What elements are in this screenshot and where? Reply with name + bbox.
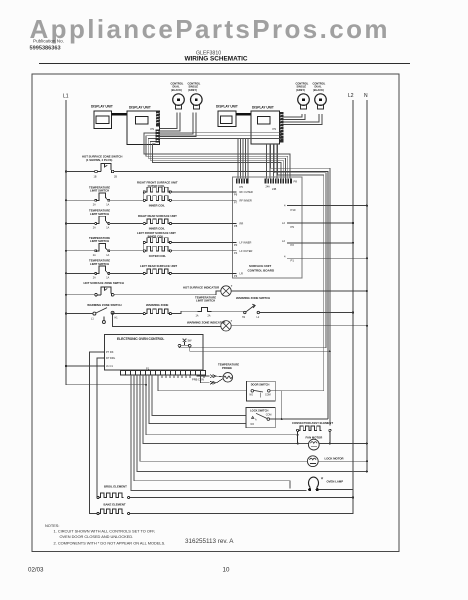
svg-text:4: 4 bbox=[284, 204, 286, 208]
heater RR coil bbox=[143, 219, 171, 225]
svg-text:P5: P5 bbox=[240, 185, 244, 189]
svg-text:2A: 2A bbox=[93, 277, 96, 280]
control switch S3 label bbox=[296, 82, 309, 92]
svg-text:P2: P2 bbox=[291, 243, 295, 247]
bus L1 bbox=[66, 100, 146, 385]
svg-text:WIRING SCHEMATIC: WIRING SCHEMATIC bbox=[184, 56, 247, 63]
warming zone switch S15 bbox=[244, 304, 260, 313]
label right front surface unit / outer coil bbox=[137, 180, 178, 188]
svg-text:OUTER COIL: OUTER COIL bbox=[149, 254, 167, 258]
hot surface zone switch S5 label bbox=[82, 155, 122, 162]
temperature limit switch label bbox=[89, 186, 110, 193]
heater broil element bbox=[97, 493, 130, 499]
connector strip on U2 right edge bbox=[156, 112, 160, 127]
schematic frame bbox=[32, 74, 399, 552]
svg-text:DISPLAY UNIT: DISPLAY UNIT bbox=[252, 106, 274, 110]
svg-text:P1: P1 bbox=[291, 259, 295, 263]
node L1-row2 bbox=[65, 199, 67, 201]
wire lock motor to N bbox=[318, 460, 368, 462]
svg-text:PRB CON: PRB CON bbox=[192, 378, 204, 382]
svg-text:LIMIT SWITCH: LIMIT SWITCH bbox=[90, 239, 109, 243]
control switch S2 (single grey) bbox=[191, 94, 203, 109]
svg-text:1A: 1A bbox=[196, 314, 199, 317]
wire bake to L2 bbox=[130, 512, 353, 515]
svg-text:H1: H1 bbox=[115, 317, 119, 320]
wires S3/S4 to U4 connector bbox=[284, 114, 323, 125]
wire row2 bbox=[66, 192, 143, 200]
heater bake element bbox=[97, 509, 130, 515]
nested harness wires from EOC connector bbox=[131, 375, 367, 490]
temperature limit switch label bbox=[89, 209, 110, 216]
svg-text:LOCK SWITCH: LOCK SWITCH bbox=[250, 408, 268, 412]
temperature limit switch label bbox=[89, 236, 110, 243]
heater LF outer coil bbox=[143, 246, 171, 252]
svg-text:24B: 24B bbox=[272, 188, 277, 191]
temperature limit switch (NC bump) bbox=[95, 266, 110, 274]
lock switch S14 bbox=[246, 407, 275, 427]
svg-text:LIMIT SWITCH: LIMIT SWITCH bbox=[90, 189, 109, 193]
lock motor M2 bbox=[307, 456, 318, 467]
wire row1 bbox=[66, 172, 328, 420]
node L1-row4 bbox=[65, 250, 67, 252]
wire drops to board connector P5 bbox=[238, 139, 248, 179]
svg-text:LIMIT SWITCH: LIMIT SWITCH bbox=[90, 212, 109, 216]
wire lock switch right bbox=[270, 418, 328, 420]
heater warming zone coil bbox=[143, 309, 171, 315]
node L1-row5 bbox=[65, 272, 67, 274]
door switch S13 bbox=[246, 381, 275, 401]
svg-text:RF INNER: RF INNER bbox=[240, 198, 252, 202]
heater convection element bbox=[297, 426, 332, 445]
svg-text:LR: LR bbox=[240, 272, 243, 276]
svg-text:LIMIT SWITCH: LIMIT SWITCH bbox=[90, 262, 109, 266]
EOC bottom connector strip P1 bbox=[121, 371, 206, 376]
svg-text:DOOR SWITCH: DOOR SWITCH bbox=[251, 383, 270, 387]
board label bbox=[248, 264, 275, 273]
svg-text:P7: P7 bbox=[234, 201, 238, 205]
wire fan motor to N bbox=[319, 442, 368, 444]
indicator lamp DS1 bbox=[221, 284, 233, 296]
wire indicator DS1 to N bbox=[231, 290, 368, 292]
board right pin P2 wire to L2 bbox=[282, 239, 354, 247]
connector P8 on board top bbox=[265, 179, 298, 192]
hot surface zone switch S10 bbox=[95, 287, 114, 296]
display unit U4 (right large) bbox=[251, 106, 280, 145]
svg-text:P10: P10 bbox=[291, 208, 296, 212]
svg-text:2. COMPONENTS WITH * DO NOT: 2. COMPONENTS WITH * DO NOT APPEAR ON AL… bbox=[54, 540, 166, 545]
bus L2 bbox=[352, 100, 354, 513]
wire row7 jog and to L2 bbox=[211, 311, 354, 313]
svg-text:P3: P3 bbox=[234, 274, 238, 278]
svg-text:LF OUTER: LF OUTER bbox=[240, 249, 253, 253]
footer notes bbox=[45, 523, 165, 545]
svg-text:L1: L1 bbox=[91, 317, 94, 320]
board left pin P3 / LR bbox=[233, 272, 243, 278]
svg-text:02/03: 02/03 bbox=[28, 567, 44, 574]
svg-text:P8: P8 bbox=[294, 180, 298, 184]
control switch S2 label bbox=[188, 82, 201, 92]
control switch S4 (dual black) bbox=[315, 94, 327, 109]
label left front surface unit / inner coil bbox=[137, 231, 176, 239]
svg-text:A: A bbox=[255, 419, 257, 422]
board left pin P7 / RF INNER bbox=[233, 198, 252, 204]
svg-text:OVEN DOOR CLOSED AND UNLOCKED.: OVEN DOOR CLOSED AND UNLOCKED. bbox=[60, 534, 134, 539]
svg-text:*: * bbox=[231, 319, 233, 324]
svg-text:2A: 2A bbox=[93, 227, 96, 230]
svg-text:1A: 1A bbox=[106, 227, 109, 230]
temperature limit switch label bbox=[89, 259, 110, 266]
svg-text:CONTROL BOARD: CONTROL BOARD bbox=[248, 269, 275, 273]
svg-text:D7 DRL: D7 DRL bbox=[106, 356, 116, 360]
wire bundle B wrap-around (to board and middle verticals) bbox=[144, 133, 330, 425]
publication number block bbox=[30, 38, 222, 56]
EOC left pin D7/DRL bbox=[103, 356, 116, 360]
svg-text:WARMING ZONE SWITCH: WARMING ZONE SWITCH bbox=[87, 303, 121, 307]
svg-text:P0: P0 bbox=[234, 243, 238, 247]
node N harness row bbox=[366, 470, 368, 472]
svg-text:2A: 2A bbox=[93, 204, 96, 207]
wires EOC lamp to right verticals bbox=[190, 347, 330, 351]
svg-text:HOT SURFACE ZONE SWITCH: HOT SURFACE ZONE SWITCH bbox=[84, 281, 124, 285]
svg-text:WARMING ZONE SWITCH: WARMING ZONE SWITCH bbox=[236, 296, 270, 300]
svg-text:1A: 1A bbox=[106, 254, 109, 257]
svg-text:CONVECTION ASSY ELEMENT: CONVECTION ASSY ELEMENT bbox=[292, 421, 333, 425]
svg-text:BAKE ELEMENT: BAKE ELEMENT bbox=[104, 503, 126, 507]
svg-text:L2: L2 bbox=[348, 93, 354, 99]
svg-text:N: N bbox=[364, 93, 368, 99]
svg-text:OVEN LAMP: OVEN LAMP bbox=[327, 479, 344, 483]
connector P9 on U4 right edge bbox=[273, 112, 284, 143]
board left pin P4 / LF OUTER bbox=[233, 249, 253, 255]
svg-text:(GREY): (GREY) bbox=[296, 88, 305, 92]
svg-text:NO: NO bbox=[251, 423, 255, 426]
svg-text:2B: 2B bbox=[114, 176, 117, 179]
node L1-row6 bbox=[65, 294, 67, 296]
svg-text:10: 10 bbox=[223, 566, 230, 573]
svg-text:PROBE: PROBE bbox=[222, 366, 232, 370]
wire indicator DS2 to N bbox=[231, 325, 368, 327]
heater LR coil bbox=[143, 269, 171, 275]
wire oven lamp to L2 bbox=[319, 489, 353, 491]
svg-text:P8: P8 bbox=[234, 224, 238, 228]
control switch S1 (dual black) bbox=[173, 94, 185, 109]
svg-text:L2: L2 bbox=[282, 239, 285, 243]
svg-text:5W: 5W bbox=[188, 338, 192, 342]
svg-text:4: 4 bbox=[284, 255, 286, 259]
svg-text:COM: COM bbox=[266, 414, 272, 417]
board right pin P1 wire to N bbox=[284, 255, 368, 263]
EOC connector pin stubs bbox=[162, 375, 204, 378]
svg-text:ELECTRONIC OVEN CONTROL: ELECTRONIC OVEN CONTROL bbox=[117, 337, 164, 341]
svg-text:1A: 1A bbox=[106, 204, 109, 207]
heater RF inner coil bbox=[143, 196, 171, 202]
svg-text:(GREY): (GREY) bbox=[188, 88, 197, 92]
board left pin P6 / RF OUTER bbox=[233, 190, 253, 196]
control switch S1 label bbox=[171, 82, 184, 92]
wire row5 bbox=[66, 272, 143, 274]
warming temperature limit switch S12 (NC bump) bbox=[198, 307, 212, 311]
svg-text:HOT SURFACE INDICATOR: HOT SURFACE INDICATOR bbox=[183, 285, 219, 289]
svg-text:RF OUTER: RF OUTER bbox=[240, 190, 253, 194]
svg-text:24A: 24A bbox=[266, 186, 271, 189]
wire door COM to lock COM bbox=[270, 391, 282, 419]
temperature limit switch (NC bump) bbox=[95, 193, 110, 201]
board right pin P10 wire to N bbox=[284, 204, 368, 212]
svg-text:WARMING ZONE INDICATOR: WARMING ZONE INDICATOR bbox=[187, 320, 225, 324]
temperature limit switch (NC bump) bbox=[95, 216, 110, 224]
wires S1/S2 to U2 connector bbox=[160, 112, 197, 136]
wire row4 bbox=[66, 242, 143, 250]
node L1-row3 bbox=[65, 222, 67, 224]
hot surface zone switch S5 bbox=[95, 164, 114, 173]
wire branch to warming indicator bbox=[112, 313, 221, 327]
svg-text:BROIL ELEMENT: BROIL ELEMENT bbox=[104, 485, 127, 489]
oven lamp DS3 bbox=[308, 477, 319, 491]
control switch S4 label bbox=[313, 82, 326, 92]
svg-text:P1: P1 bbox=[146, 366, 150, 370]
node L1-row1 bbox=[65, 170, 67, 172]
connector P9 on U2 bbox=[151, 127, 160, 143]
connector P5 on board top bbox=[236, 179, 249, 190]
svg-text:LF INNER: LF INNER bbox=[240, 241, 252, 245]
indicator lamp DS2 bbox=[221, 319, 233, 331]
board left pin P0 / LF INNER bbox=[233, 241, 252, 247]
warming zone switch S11 bbox=[93, 308, 114, 324]
node L1 to EOC pin bbox=[65, 365, 67, 367]
wire row3 bbox=[66, 223, 143, 225]
fan motor M1 bbox=[308, 439, 319, 450]
heater RF outer coil bbox=[143, 187, 171, 193]
surface unit control board U5 bbox=[233, 177, 303, 278]
wire row6 to indicator bbox=[66, 291, 221, 295]
svg-text:P6: P6 bbox=[234, 192, 238, 196]
temperature probe RT1 bbox=[223, 373, 233, 383]
svg-text:NO: NO bbox=[250, 394, 254, 397]
svg-text:DISPLAY UNIT: DISPLAY UNIT bbox=[129, 106, 151, 110]
svg-text:P4: P4 bbox=[234, 251, 238, 255]
svg-text:1. CIRCUIT SHOWN WITH ALL CON: 1. CIRCUIT SHOWN WITH ALL CONTROLS SET T… bbox=[54, 528, 156, 533]
svg-text:SURFACE UNIT: SURFACE UNIT bbox=[249, 264, 271, 268]
svg-text:P9: P9 bbox=[273, 127, 277, 131]
board right pin P9 wire to L2 bbox=[282, 221, 354, 229]
svg-text:*: * bbox=[321, 477, 324, 484]
svg-text:J1 C1: J1 C1 bbox=[106, 364, 113, 368]
svg-text:P9: P9 bbox=[151, 127, 155, 131]
electronic oven control U6 bbox=[105, 335, 204, 371]
wire U3 to U4 (thick ribbon) bbox=[236, 113, 251, 116]
label oven lamp bbox=[321, 477, 343, 484]
svg-text:2A: 2A bbox=[208, 314, 211, 317]
display unit U1 (left small) bbox=[91, 105, 113, 129]
EOC left pin J1/C1 bbox=[103, 364, 113, 368]
svg-text:H2: H2 bbox=[242, 316, 246, 319]
wire broil to L2 bbox=[130, 496, 354, 498]
label temperature probe bbox=[218, 363, 239, 370]
svg-text:WARMING ZONE: WARMING ZONE bbox=[146, 303, 169, 307]
svg-text:1A: 1A bbox=[106, 277, 109, 280]
bus N bbox=[366, 100, 368, 472]
svg-text:DISPLAY UNIT: DISPLAY UNIT bbox=[216, 105, 238, 109]
svg-text:L2: L2 bbox=[257, 316, 260, 319]
svg-text:1B: 1B bbox=[94, 176, 97, 179]
board left pin P8 / RR bbox=[233, 222, 244, 228]
svg-text:COM: COM bbox=[265, 393, 271, 396]
svg-text:5995386363: 5995386363 bbox=[30, 46, 61, 52]
svg-text:2A: 2A bbox=[93, 254, 96, 257]
svg-text:(BLACK): (BLACK) bbox=[171, 88, 182, 92]
svg-text:(1 SHOWN, 4 PLCS): (1 SHOWN, 4 PLCS) bbox=[86, 158, 112, 162]
control switch S3 (single grey) bbox=[298, 94, 310, 109]
EOC interior lamp 5W bbox=[178, 339, 191, 347]
warming temperature limit switch S12 label bbox=[195, 295, 216, 302]
svg-text:LOCK MOTOR: LOCK MOTOR bbox=[325, 457, 344, 461]
EOC left pin P7/DK bbox=[103, 350, 114, 354]
svg-text:NOTES:: NOTES: bbox=[45, 523, 59, 528]
wire bundle A between display connectors bbox=[160, 133, 284, 139]
svg-text:P7 DK: P7 DK bbox=[106, 350, 114, 354]
display unit U2 (left large) bbox=[127, 106, 160, 145]
svg-text:L1: L1 bbox=[63, 94, 69, 100]
svg-text:AppliancePartsPros.com: AppliancePartsPros.com bbox=[30, 14, 388, 44]
wires EOC left pins down to elements bbox=[66, 352, 103, 514]
svg-text:LIMIT SWITCH: LIMIT SWITCH bbox=[196, 299, 215, 303]
svg-text:*: * bbox=[231, 284, 233, 289]
svg-text:DISPLAY UNIT: DISPLAY UNIT bbox=[91, 105, 113, 109]
connector PRB CON chevrons bbox=[210, 375, 216, 385]
svg-text:LEFT REAR SURFACE UNIT: LEFT REAR SURFACE UNIT bbox=[140, 264, 177, 268]
svg-text:RIGHT REAR SURFACE UNIT: RIGHT REAR SURFACE UNIT bbox=[138, 214, 177, 218]
svg-text:L2: L2 bbox=[282, 221, 285, 225]
svg-text:Publication No.: Publication No. bbox=[33, 38, 64, 43]
svg-text:P9: P9 bbox=[291, 225, 295, 229]
wire drops to board connector P8 bbox=[267, 144, 278, 179]
wire U1 to U2 (thick ribbon) bbox=[111, 113, 127, 116]
title underline bbox=[39, 63, 410, 65]
svg-text:INNER COIL: INNER COIL bbox=[149, 203, 165, 207]
temperature limit switch (NC bump) bbox=[95, 244, 110, 252]
svg-text:316255113 rev. A: 316255113 rev. A bbox=[185, 538, 234, 545]
svg-text:RR: RR bbox=[240, 222, 244, 226]
node L1-row7 bbox=[65, 313, 67, 315]
heater LF inner coil bbox=[143, 238, 171, 244]
wire probe leads bbox=[197, 375, 223, 383]
wire row7 bbox=[66, 313, 143, 315]
display unit U3 (right small) bbox=[216, 105, 238, 127]
svg-text:(BLACK): (BLACK) bbox=[313, 88, 324, 92]
